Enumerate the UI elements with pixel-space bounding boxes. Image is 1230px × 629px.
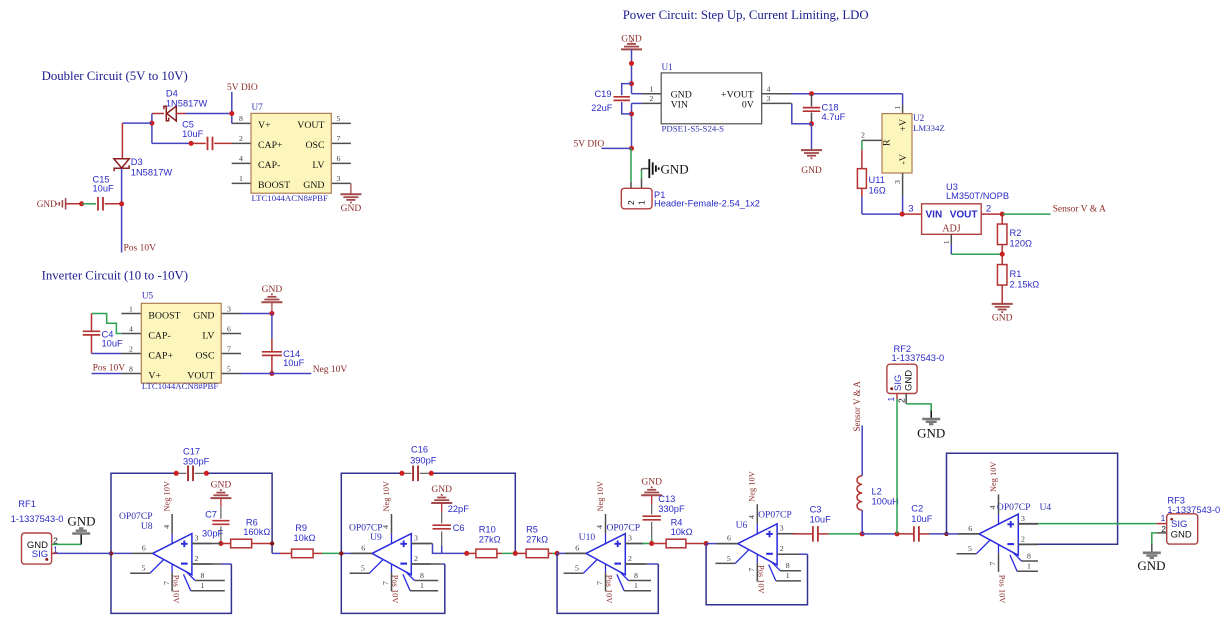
svg-text:2: 2 [414,554,418,563]
svg-text:3: 3 [767,94,771,103]
svg-text:6: 6 [361,543,365,552]
svg-text:2: 2 [897,398,907,403]
svg-text:3: 3 [337,174,341,183]
svg-text:10uF: 10uF [93,184,115,194]
svg-text:7: 7 [747,568,756,572]
svg-text:VOUT: VOUT [950,209,978,220]
svg-text:1: 1 [786,571,790,580]
svg-text:3: 3 [780,524,784,533]
svg-text:4.7uF: 4.7uF [822,112,846,122]
svg-text:390pF: 390pF [183,457,210,467]
svg-text:2: 2 [628,554,632,563]
svg-text:GND: GND [992,314,1013,324]
svg-text:7: 7 [988,562,997,566]
svg-text:3: 3 [1021,514,1025,523]
svg-text:C5: C5 [182,119,194,129]
svg-text:D3: D3 [131,157,143,167]
svg-text:GND: GND [37,199,57,209]
svg-text:Doubler Circuit (5V to 10V): Doubler Circuit (5V to 10V) [42,69,188,83]
svg-text:D4: D4 [166,88,178,98]
svg-text:7: 7 [162,581,171,585]
svg-text:6: 6 [337,154,341,163]
svg-text:5: 5 [727,554,731,563]
svg-text:10kΩ: 10kΩ [671,527,693,537]
svg-text:GND: GND [661,161,689,176]
svg-text:22pF: 22pF [448,504,470,514]
svg-text:2: 2 [626,200,636,205]
svg-text:120Ω: 120Ω [1010,238,1033,248]
svg-text:2: 2 [861,131,865,140]
svg-text:1: 1 [942,240,951,244]
svg-text:SIG: SIG [1171,519,1187,530]
svg-text:Pos 10V: Pos 10V [757,565,766,594]
svg-text:0V: 0V [742,99,754,110]
svg-text:C7: C7 [205,509,217,519]
svg-text:8: 8 [201,571,205,580]
svg-text:R10: R10 [479,525,496,535]
svg-text:1N5817W: 1N5817W [131,168,173,178]
svg-text:4: 4 [767,84,771,93]
svg-text:GND: GND [67,514,95,529]
svg-text:OP07CP: OP07CP [997,502,1031,513]
svg-text:8: 8 [420,571,424,580]
svg-text:U9: U9 [370,532,382,543]
svg-text:5: 5 [227,364,231,373]
svg-text:GND: GND [303,180,324,191]
svg-text:390pF: 390pF [410,456,437,466]
svg-text:10uF: 10uF [182,129,204,139]
svg-text:+V: +V [898,119,909,132]
svg-text:10uF: 10uF [283,358,305,368]
svg-text:1: 1 [1027,562,1031,571]
svg-text:LM334Z: LM334Z [913,123,945,133]
svg-text:8: 8 [239,114,243,123]
svg-text:5: 5 [142,564,146,573]
svg-text:1: 1 [636,200,646,205]
svg-text:2: 2 [1021,535,1025,544]
svg-text:1-1337543-0: 1-1337543-0 [892,353,945,363]
svg-text:CAP-: CAP- [258,160,280,171]
svg-text:RF1: RF1 [18,499,36,509]
svg-text:C3: C3 [810,505,822,515]
svg-text:10uF: 10uF [102,338,124,348]
svg-text:3: 3 [908,204,913,215]
svg-text:330pF: 330pF [658,504,685,514]
svg-text:GND: GND [341,204,362,214]
svg-text:VOUT: VOUT [297,120,324,131]
svg-text:27kΩ: 27kΩ [526,535,548,545]
svg-text:Neg 10V: Neg 10V [596,481,605,511]
svg-text:1: 1 [886,397,896,402]
svg-text:16Ω: 16Ω [869,186,886,196]
svg-text:2: 2 [780,544,784,553]
svg-text:7: 7 [227,344,231,353]
svg-text:1N5817W: 1N5817W [166,99,208,109]
svg-text:Pos 10V: Pos 10V [93,364,126,374]
svg-text:U8: U8 [141,521,153,532]
svg-text:U4: U4 [1040,502,1052,513]
svg-text:160kΩ: 160kΩ [243,527,270,537]
svg-text:U11: U11 [869,175,885,185]
svg-text:1: 1 [634,581,638,590]
svg-text:7: 7 [337,134,341,143]
svg-text:LTC1044ACN8#PBF: LTC1044ACN8#PBF [252,193,329,203]
svg-text:3: 3 [628,534,632,543]
svg-text:3: 3 [893,180,902,184]
svg-text:U6: U6 [736,520,748,531]
svg-text:Neg 10V: Neg 10V [989,462,998,492]
svg-text:Pos 10V: Pos 10V [124,244,157,254]
svg-text:Neg 10V: Neg 10V [748,471,757,501]
svg-text:GND: GND [1137,558,1165,573]
svg-text:C18: C18 [822,102,839,112]
svg-text:OSC: OSC [195,350,214,361]
svg-text:1: 1 [239,174,243,183]
svg-text:1: 1 [201,581,205,590]
svg-text:10uF: 10uF [911,514,933,524]
svg-text:2: 2 [650,94,654,103]
svg-text:5V DIO: 5V DIO [227,83,258,93]
svg-text:8: 8 [634,571,638,580]
svg-text:2: 2 [239,134,243,143]
svg-text:ADJ: ADJ [942,224,960,235]
svg-text:SIG: SIG [32,549,48,560]
svg-text:1: 1 [893,106,902,110]
svg-text:8: 8 [129,364,133,373]
svg-text:2.15kΩ: 2.15kΩ [1010,279,1040,289]
svg-text:1-1337543-0: 1-1337543-0 [11,514,64,524]
svg-text:27kΩ: 27kΩ [479,535,501,545]
svg-text:OSC: OSC [305,140,324,151]
svg-text:U1: U1 [662,62,674,72]
svg-text:Header-Female-2.54_1x2: Header-Female-2.54_1x2 [654,199,760,209]
svg-text:U10: U10 [579,532,596,543]
svg-text:PDSE1-S5-S24-S: PDSE1-S5-S24-S [662,124,725,134]
svg-text:R1: R1 [1010,269,1022,279]
svg-text:RF3: RF3 [1167,495,1185,505]
svg-text:5: 5 [968,544,972,553]
svg-text:C13: C13 [658,494,675,504]
svg-text:BOOST: BOOST [148,310,180,321]
svg-text:CAP+: CAP+ [258,140,283,151]
svg-text:Neg 10V: Neg 10V [163,481,172,511]
svg-text:2: 2 [129,344,133,353]
svg-text:5V DIO: 5V DIO [574,140,605,150]
svg-text:1: 1 [129,304,133,313]
svg-text:CAP-: CAP- [148,330,170,341]
svg-text:6: 6 [142,543,146,552]
svg-text:L2: L2 [872,486,882,496]
svg-text:8: 8 [786,561,790,570]
svg-text:R: R [882,139,893,146]
svg-text:5: 5 [361,564,365,573]
svg-text:C17: C17 [183,446,200,456]
svg-text:GND: GND [1171,530,1192,541]
svg-text:LM350T/NOPB: LM350T/NOPB [946,191,1009,201]
svg-text:5: 5 [337,114,341,123]
svg-text:C2: C2 [911,503,923,513]
svg-text:C6: C6 [453,523,465,533]
svg-text:Pos 10V: Pos 10V [998,575,1007,604]
svg-text:6: 6 [575,543,579,552]
svg-text:Pos 10V: Pos 10V [391,575,400,604]
svg-text:VIN: VIN [926,209,943,220]
svg-text:7: 7 [595,581,604,585]
svg-text:5: 5 [575,564,579,573]
svg-text:LV: LV [202,330,214,341]
svg-text:4: 4 [988,505,997,509]
svg-text:GND: GND [917,426,945,441]
svg-text:R2: R2 [1010,228,1022,238]
svg-text:R5: R5 [526,525,538,535]
svg-text:V+: V+ [148,370,161,381]
svg-text:BOOST: BOOST [258,180,290,191]
svg-text:3: 3 [414,534,418,543]
svg-text:R9: R9 [295,523,307,533]
svg-text:22uF: 22uF [591,103,613,113]
svg-text:GND: GND [431,485,452,495]
svg-text:1: 1 [420,581,424,590]
svg-text:3: 3 [195,534,199,543]
svg-text:4: 4 [162,525,171,529]
svg-text:OP07CP: OP07CP [607,522,641,533]
svg-text:VOUT: VOUT [187,370,214,381]
svg-text:GND: GND [641,478,662,488]
svg-text:4: 4 [595,525,604,529]
svg-text:6: 6 [227,324,231,333]
svg-text:Neg 10V: Neg 10V [313,365,348,375]
svg-text:C19: C19 [594,89,611,99]
svg-text:U7: U7 [252,102,264,112]
svg-text:Sensor V & A: Sensor V & A [1053,204,1106,214]
svg-text:4: 4 [239,154,243,163]
svg-text:GND: GND [211,480,232,490]
svg-text:Sensor V & A: Sensor V & A [852,381,862,432]
svg-text:10uF: 10uF [810,515,832,525]
svg-text:1: 1 [1161,513,1166,523]
svg-text:1: 1 [650,84,654,93]
svg-text:V+: V+ [258,120,271,131]
svg-text:4: 4 [129,324,133,333]
svg-text:30pF: 30pF [202,528,224,538]
svg-text:U2: U2 [913,113,925,123]
svg-text:Neg 10V: Neg 10V [382,481,391,511]
svg-text:6: 6 [968,524,972,533]
svg-text:4: 4 [747,515,756,519]
svg-text:3: 3 [227,304,231,313]
svg-text:LTC1044ACN8#PBF: LTC1044ACN8#PBF [142,381,219,391]
svg-text:6: 6 [727,534,731,543]
svg-text:GND: GND [801,166,822,176]
svg-text:2: 2 [195,554,199,563]
svg-text:100uH: 100uH [872,497,899,507]
svg-text:C16: C16 [411,445,428,455]
svg-text:LV: LV [312,160,324,171]
svg-text:Pos 10V: Pos 10V [171,575,180,604]
svg-text:Pos 10V: Pos 10V [605,575,614,604]
svg-text:10kΩ: 10kΩ [294,533,316,543]
svg-text:OP07CP: OP07CP [758,509,792,520]
svg-text:Inverter Circuit (10 to -10V): Inverter Circuit (10 to -10V) [42,269,188,283]
svg-text:8: 8 [1027,551,1031,560]
svg-text:GND: GND [904,370,915,391]
svg-text:SIG: SIG [893,375,904,391]
svg-text:GND: GND [193,310,214,321]
svg-text:-V: -V [898,154,909,164]
svg-text:Power Circuit: Step Up, Curren: Power Circuit: Step Up, Current Limiting… [623,8,869,22]
svg-text:VIN: VIN [671,99,688,110]
svg-text:U5: U5 [142,291,154,301]
svg-text:2: 2 [986,204,991,215]
svg-text:7: 7 [381,581,390,585]
svg-text:CAP+: CAP+ [148,350,173,361]
